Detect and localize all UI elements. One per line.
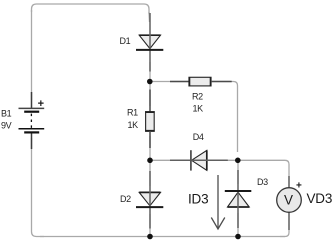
wire node B to D2 (149, 160, 151, 186)
diode D3 (225, 170, 252, 228)
svg-text:+: + (38, 98, 44, 110)
wire top rail (32, 4, 150, 14)
wire node C to voltmeter (238, 160, 289, 188)
voltmeter VD3 (277, 176, 302, 230)
svg-text:1K: 1K (193, 104, 204, 114)
wire left rail upper (31, 10, 33, 100)
diode D1 (136, 13, 163, 72)
diode D2 (136, 171, 163, 229)
svg-text:R2: R2 (192, 92, 203, 102)
diode D4 (170, 150, 228, 170)
wire D4 to node C (212, 159, 238, 161)
svg-text:+: + (296, 181, 302, 192)
resistor R1 (145, 90, 154, 149)
node A junction (147, 79, 153, 85)
svg-text:VD3: VD3 (307, 191, 333, 206)
node B junction (147, 158, 153, 164)
node C junction (235, 158, 241, 164)
battery B1 (19, 92, 45, 149)
svg-text:D1: D1 (120, 36, 131, 46)
wire node A to R2 (150, 81, 189, 83)
wire R2 to right drop (211, 82, 238, 153)
junction dot bottom D2 (147, 234, 153, 240)
svg-text:1K: 1K (128, 120, 139, 130)
current arrow ID3 (211, 175, 225, 229)
wire R1 to node B (149, 136, 151, 160)
svg-text:B1: B1 (1, 108, 12, 118)
junction dot bottom D3 (235, 234, 241, 240)
wire left rail lower (32, 138, 45, 237)
wire D1 to node A (149, 62, 151, 82)
wire node C to D3 (237, 160, 239, 184)
svg-text:R1: R1 (127, 108, 138, 118)
svg-text:V: V (284, 192, 293, 207)
wire node B to D4 (150, 159, 184, 161)
svg-text:ID3: ID3 (188, 192, 208, 207)
wire bottom rail (40, 236, 285, 238)
wire D3 to bottom rail (237, 213, 239, 237)
wire voltmeter to bottom rail (280, 212, 289, 237)
wire D2 to bottom rail (149, 214, 151, 237)
svg-text:D3: D3 (257, 177, 268, 187)
svg-text:9V: 9V (1, 121, 12, 131)
svg-text:D2: D2 (120, 194, 131, 204)
wire D1 top lead net (148, 12, 151, 22)
wire node A to R1 (149, 82, 151, 107)
resistor R2 (170, 77, 232, 86)
svg-text:D4: D4 (193, 132, 204, 142)
